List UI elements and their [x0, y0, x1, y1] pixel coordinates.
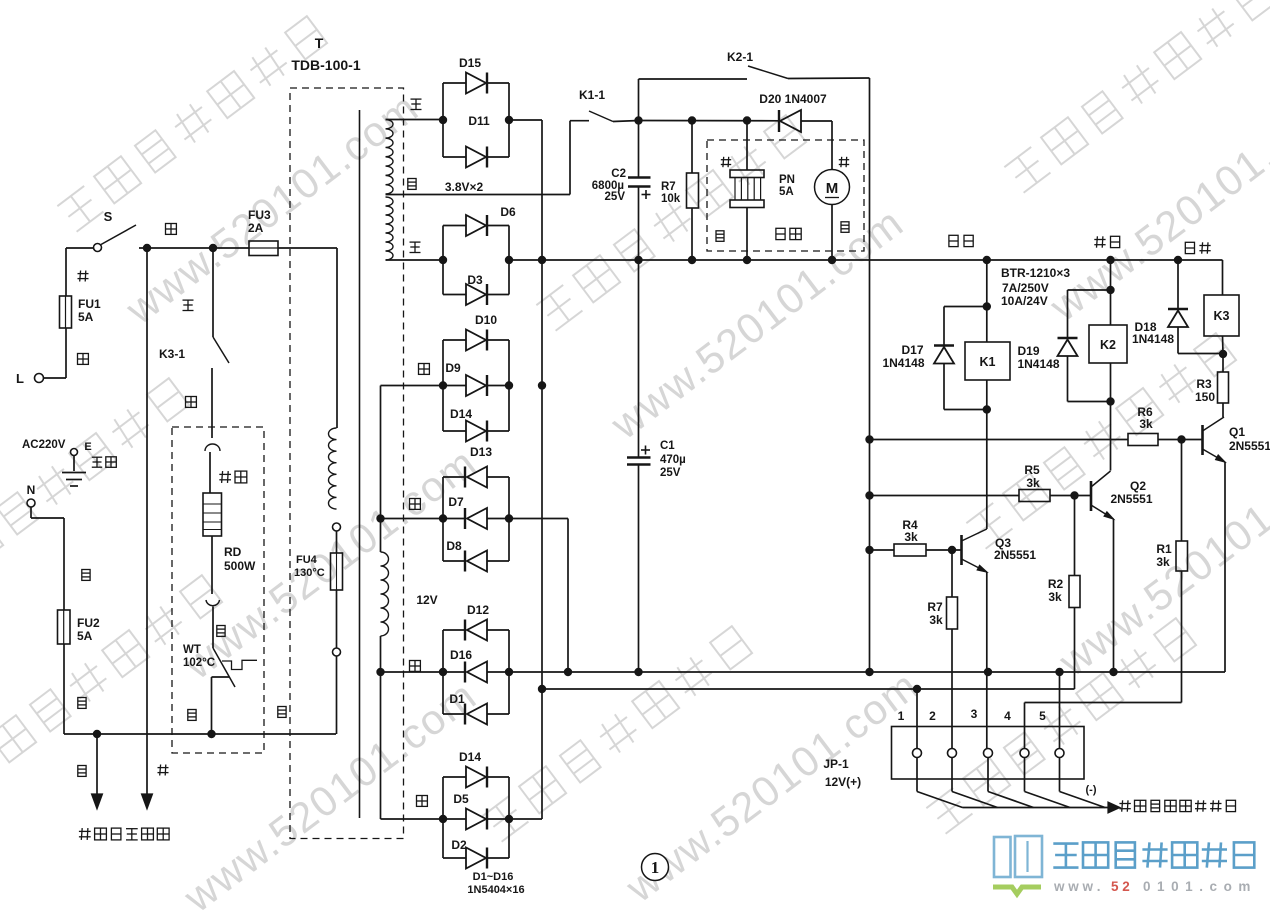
svg-text:WT: WT	[183, 644, 201, 656]
label blue tank	[188, 710, 196, 721]
relay K2	[1110, 260, 1112, 325]
svg-text:R3: R3	[1196, 377, 1212, 391]
wire to D20	[639, 120, 780, 122]
svg-text:R1: R1	[1156, 542, 1172, 556]
label blue 2	[78, 698, 86, 709]
svg-text:D11: D11	[468, 114, 490, 128]
fuse FU1	[60, 296, 72, 328]
tap green 1	[381, 385, 444, 387]
svg-text:25V: 25V	[605, 191, 626, 203]
label black tap	[408, 179, 416, 190]
diode pair D15 D11	[442, 83, 444, 157]
svg-text:2N5551: 2N5551	[994, 548, 1036, 562]
wire D20 to motor	[831, 121, 833, 170]
svg-text:D7: D7	[448, 495, 464, 509]
diode group D13 D7 D8	[442, 477, 444, 561]
svg-text:D17: D17	[901, 343, 923, 357]
terminal E + earth ground	[71, 449, 78, 456]
wire FU4 to lower terminal	[336, 590, 338, 648]
svg-text:2N5551: 2N5551	[1110, 492, 1152, 506]
label heating	[1185, 242, 1194, 253]
svg-text:PN: PN	[779, 174, 795, 186]
svg-text:1: 1	[898, 709, 905, 723]
label yellow wire	[183, 299, 194, 301]
label blue 1	[82, 570, 90, 581]
svg-text:FU3: FU3	[248, 208, 271, 222]
label yellow tap1	[411, 98, 422, 100]
relay K3	[1222, 260, 1224, 295]
12V positive line	[538, 685, 546, 693]
svg-text:(-): (-)	[1086, 784, 1097, 796]
thermostat lower connection	[212, 676, 230, 678]
label yellow tap2	[410, 241, 421, 243]
svg-text:500W: 500W	[224, 559, 256, 573]
label keep-cold	[949, 235, 958, 246]
wire N to FU2	[30, 507, 32, 518]
label green tap4	[417, 796, 428, 807]
svg-text:D20 1N4007: D20 1N4007	[759, 92, 827, 106]
diode group D10 D9 D14	[442, 340, 444, 431]
svg-text:12V(+): 12V(+)	[825, 775, 861, 789]
transformer core	[359, 110, 361, 818]
svg-text:1N4148: 1N4148	[1017, 357, 1059, 371]
svg-text:R2: R2	[1048, 577, 1064, 591]
wire R1 to pin4	[1025, 702, 1182, 704]
svg-text:D9: D9	[445, 361, 461, 375]
svg-text:K1-1: K1-1	[579, 88, 605, 102]
diode D19	[1068, 289, 1111, 291]
cold tank dashed enclosure	[707, 140, 864, 251]
svg-text:K1: K1	[980, 355, 996, 369]
tap green 2	[381, 518, 444, 520]
fuse FU2	[58, 610, 71, 644]
transistor Q2	[1090, 481, 1093, 511]
branch to sterilizer (red)	[146, 248, 148, 795]
svg-text:12V: 12V	[416, 593, 437, 607]
wire riser to K2-1	[638, 79, 640, 121]
svg-text:RD: RD	[224, 545, 242, 559]
wire FU3 to transformer	[278, 247, 337, 249]
label blue 3	[78, 766, 86, 777]
svg-text:R5: R5	[1024, 463, 1040, 477]
svg-text:D2: D2	[451, 838, 467, 852]
label black left	[716, 231, 724, 242]
resistor R5	[1019, 490, 1050, 502]
resistor R4	[894, 544, 926, 556]
svg-text:1N4148: 1N4148	[882, 356, 924, 370]
wire primary to neutral rail	[336, 656, 338, 734]
thermostat WT blade	[213, 648, 235, 687]
base line Q3	[870, 549, 895, 551]
svg-text:Q1: Q1	[1229, 425, 1245, 439]
12V winding junction dots	[376, 514, 384, 522]
label to microcomputer board	[1119, 803, 1130, 805]
svg-text:N: N	[27, 483, 36, 497]
label green wire	[166, 224, 177, 235]
tap yellow upper	[386, 119, 444, 121]
primary terminal lower	[333, 648, 341, 656]
main live wire	[139, 247, 249, 249]
svg-text:Q2: Q2	[1130, 479, 1146, 493]
wire pin1 from 12V line	[916, 689, 918, 749]
label blue 4	[278, 707, 286, 718]
wire to K3-1	[212, 248, 214, 337]
supply rail 260	[509, 259, 1223, 261]
wire FU3 to primary	[336, 248, 338, 428]
svg-text:E: E	[84, 441, 91, 453]
wire Q3 emitter	[986, 572, 988, 749]
label red wire	[78, 273, 89, 275]
svg-text:25V: 25V	[660, 467, 681, 479]
relay K1	[986, 260, 988, 342]
svg-text:K2: K2	[1100, 338, 1116, 352]
connector JP-1 box	[892, 727, 1085, 780]
svg-text:C2: C2	[611, 168, 626, 180]
resistor R3	[1222, 354, 1224, 372]
label green tap3	[410, 661, 421, 672]
diode group D14b D5 D2	[442, 777, 444, 858]
svg-text:470µ: 470µ	[660, 454, 686, 466]
connector hook upper	[205, 444, 220, 451]
svg-text:D10: D10	[475, 313, 497, 327]
svg-text:10k: 10k	[661, 193, 681, 205]
svg-text:3k: 3k	[904, 530, 918, 544]
base line Q2	[870, 495, 1020, 497]
node K1-1 output	[634, 116, 642, 124]
secondary 12V winding	[380, 386, 382, 553]
wire center tap riser	[569, 121, 571, 195]
svg-text:D13: D13	[470, 445, 492, 459]
svg-text:FU2: FU2	[77, 616, 100, 630]
svg-text:1: 1	[651, 858, 660, 877]
label brown 2	[186, 397, 197, 408]
label yellow-green	[92, 456, 102, 458]
svg-text:D1~D16: D1~D16	[473, 871, 514, 883]
label to sterilizer circuit	[79, 830, 91, 832]
svg-text:4: 4	[1004, 709, 1011, 723]
wire pin5 from rail	[1059, 672, 1061, 749]
svg-text:AC220V: AC220V	[22, 439, 66, 451]
svg-text:w w w .: w w w .	[1053, 879, 1101, 894]
svg-text:1N4148: 1N4148	[1132, 332, 1174, 346]
transistor Q1	[1201, 425, 1204, 455]
switch K1-1	[589, 111, 613, 122]
primary terminal upper	[333, 523, 341, 531]
node dots line 120	[688, 116, 696, 124]
svg-text:R7: R7	[927, 600, 943, 614]
svg-text:3k: 3k	[1048, 590, 1062, 604]
peltier PN module	[746, 121, 748, 171]
tap yellow lower	[386, 259, 444, 261]
thermostat fixed contact	[222, 660, 257, 669]
connector holes	[913, 749, 922, 758]
svg-text:D16: D16	[450, 648, 472, 662]
diode pair D6 D3	[442, 226, 444, 295]
svg-text:K2-1: K2-1	[727, 50, 753, 64]
svg-text:5A: 5A	[78, 310, 94, 324]
svg-text:3k: 3k	[1026, 476, 1040, 490]
svg-text:3k: 3k	[1156, 555, 1170, 569]
svg-text:150: 150	[1195, 390, 1215, 404]
control board line + arrow	[963, 807, 1109, 809]
svg-text:D14: D14	[459, 750, 481, 764]
fuse FU3	[249, 241, 278, 256]
capacitor C1	[638, 260, 640, 457]
svg-text:102°C: 102°C	[183, 657, 215, 669]
bottom neutral rail	[64, 733, 336, 735]
negative rail	[509, 671, 1225, 673]
wire K3-1 to tank	[211, 368, 213, 438]
svg-text:2A: 2A	[248, 221, 264, 235]
svg-text:5 2: 5 2	[1111, 879, 1130, 894]
wire D13 group output	[509, 518, 568, 520]
svg-text:L: L	[16, 371, 24, 386]
wire D15 D11 output	[509, 119, 542, 121]
switch S	[94, 244, 102, 252]
resistor R1	[1181, 440, 1183, 542]
svg-text:0 1 0 1 . c o m: 0 1 0 1 . c o m	[1143, 879, 1252, 894]
site logo	[994, 837, 1011, 877]
transformer dashed box	[290, 88, 404, 839]
label green tap1	[419, 364, 430, 375]
watermark layer	[56, 16, 327, 232]
svg-text:K3: K3	[1214, 309, 1230, 323]
svg-text:JP-1: JP-1	[823, 757, 849, 771]
label red left	[721, 159, 731, 161]
svg-text:3: 3	[971, 707, 978, 721]
label green tap2	[410, 499, 421, 510]
svg-text:D15: D15	[459, 56, 481, 70]
svg-text:D14: D14	[450, 407, 472, 421]
hot tank dashed enclosure	[172, 427, 264, 753]
primary winding upper	[329, 428, 337, 509]
label brown wire	[78, 354, 89, 365]
svg-text:3k: 3k	[1139, 417, 1153, 431]
label cooling	[1094, 239, 1105, 241]
wire Q1 emitter	[1224, 462, 1226, 672]
secondary 3.8V winding	[386, 120, 394, 195]
blue branch arrow	[96, 734, 98, 795]
switch K2-1	[748, 66, 788, 79]
svg-text:D6: D6	[500, 205, 516, 219]
wire heater to hook	[211, 536, 213, 594]
svg-text:T: T	[315, 35, 324, 51]
wire D14b group output	[509, 818, 542, 820]
terminal L	[35, 374, 44, 383]
wire hook to heater	[209, 452, 211, 493]
capacitor C2	[638, 121, 640, 178]
thermal fuse FU4	[331, 553, 343, 590]
svg-text:FU1: FU1	[78, 297, 101, 311]
label red right	[839, 159, 849, 161]
diode D17	[944, 306, 987, 308]
heater RD	[203, 493, 222, 536]
svg-text:D5: D5	[453, 792, 469, 806]
connector pigtails	[916, 758, 918, 792]
resistor R7 lower	[951, 550, 953, 597]
svg-text:M: M	[826, 180, 839, 197]
svg-text:C1: C1	[660, 440, 675, 452]
svg-text:5: 5	[1039, 709, 1046, 723]
connector hook lower	[206, 600, 220, 606]
svg-text:D8: D8	[446, 539, 462, 553]
switch K3-1	[213, 337, 229, 363]
label black wire	[217, 626, 225, 637]
svg-text:2N5551: 2N5551	[1229, 439, 1270, 453]
resistor R6	[1128, 434, 1158, 446]
svg-text:D1: D1	[449, 692, 465, 706]
wire to FU4	[336, 531, 338, 553]
resistor R2	[1074, 496, 1076, 576]
wire FU2 to bottom rail	[63, 644, 65, 734]
arrow to sterilizer red	[142, 794, 153, 809]
svg-text:5A: 5A	[77, 629, 93, 643]
svg-text:10A/24V: 10A/24V	[1001, 294, 1048, 308]
wire to thermostat	[212, 607, 214, 649]
positive bus vertical	[541, 120, 543, 819]
motor M	[815, 170, 850, 205]
svg-text:5A: 5A	[779, 186, 794, 198]
svg-text:D12: D12	[467, 603, 489, 617]
svg-text:3k: 3k	[929, 613, 943, 627]
label black right	[841, 222, 849, 233]
svg-text:7A/250V: 7A/250V	[1002, 281, 1049, 295]
svg-text:R7: R7	[661, 181, 676, 193]
label red	[158, 767, 169, 769]
svg-text:TDB-100-1: TDB-100-1	[291, 57, 360, 73]
tap green 4	[381, 818, 444, 820]
svg-text:1N5404×16: 1N5404×16	[467, 884, 524, 896]
label cold tank	[776, 228, 785, 239]
wire L to FU1	[44, 377, 67, 379]
diode group D12 D16 D1	[442, 630, 444, 714]
figure number 1	[642, 854, 669, 881]
resistor R7 top	[691, 121, 693, 174]
wire Q2 emitter	[1113, 519, 1115, 672]
transistor Q3	[960, 535, 963, 565]
wire K2-1 down	[869, 78, 871, 672]
svg-text:K3-1: K3-1	[159, 347, 185, 361]
wire FU1 to switch S	[65, 248, 67, 296]
tap green 3	[381, 671, 444, 673]
svg-text:FU4: FU4	[296, 554, 318, 566]
svg-text:D19: D19	[1017, 344, 1039, 358]
svg-text:3.8V×2: 3.8V×2	[445, 180, 484, 194]
diode D20	[780, 110, 801, 132]
svg-text:BTR-1210×3: BTR-1210×3	[1001, 266, 1070, 280]
tap black center	[386, 194, 571, 196]
svg-text:2: 2	[929, 709, 936, 723]
svg-text:S: S	[104, 209, 113, 224]
label hot tank	[219, 473, 231, 475]
base line Q1	[870, 439, 1129, 441]
diode D18	[1177, 260, 1179, 309]
svg-text:130°C: 130°C	[294, 567, 325, 579]
svg-text:D3: D3	[467, 273, 483, 287]
